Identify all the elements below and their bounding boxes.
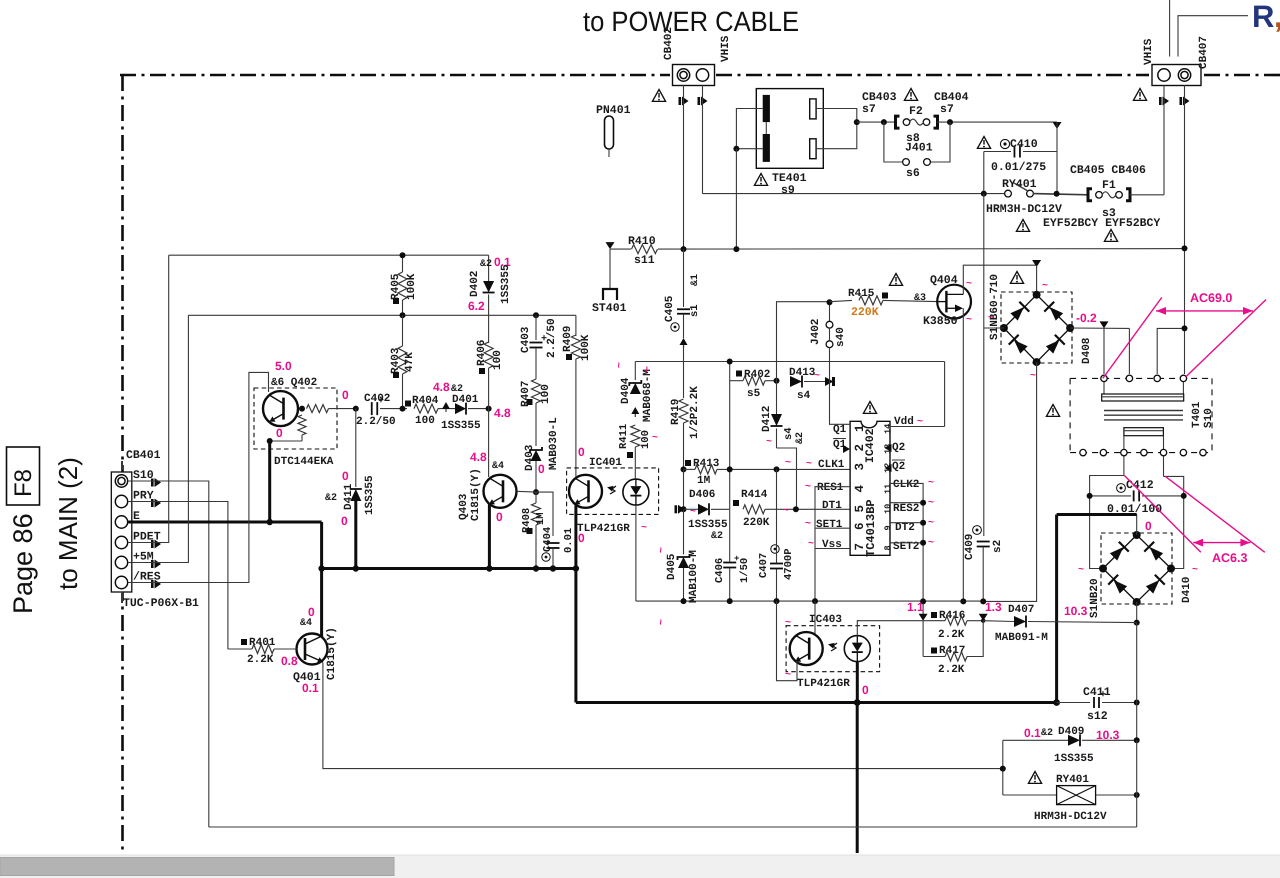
svg-text:~: ~ [652,433,658,444]
warning below D408 [1046,405,1059,417]
svg-text:Q1: Q1 [833,424,847,436]
svg-text:Vss: Vss [822,539,842,551]
T401 core [1104,410,1183,412]
capacitor C403 [535,315,537,340]
junction J402 top [827,299,833,305]
svg-text:3: 3 [853,463,867,471]
wire bus corner down to bottom bus thick [574,569,577,703]
svg-text:6: 6 [853,522,867,530]
warning near F2 [904,89,917,101]
pin CB407-2 [1178,69,1190,81]
svg-text:VHIS: VHIS [720,35,732,62]
warning EYF52BCY left [1016,220,1029,232]
svg-text:+: + [1100,690,1106,701]
svg-text:6.2: 6.2 [468,299,485,313]
svg-text:Q403: Q403 [458,493,470,520]
Q402 internal lower resistor [298,415,306,435]
svg-text:MAB068-M: MAB068-M [642,369,654,422]
svg-text:s12: s12 [1087,710,1108,723]
svg-text:D406: D406 [689,489,715,501]
svg-text:2.2K: 2.2K [938,629,965,641]
svg-text:F1: F1 [1102,179,1116,192]
T401 primary pins [1101,375,1107,381]
svg-text:C1815(Y): C1815(Y) [326,627,338,680]
wire SET1 stub [815,527,850,529]
svg-text:J402: J402 [810,319,822,345]
resistor R413 1M [685,460,691,466]
svg-text:~: ~ [928,498,934,509]
svg-text:&3: &3 [914,293,926,304]
wire /RES net to Q402 collector [128,372,269,582]
svg-text:&6 Q402: &6 Q402 [271,377,317,389]
warning near RY401 coil [1028,772,1041,784]
wire Vss stub [815,548,850,550]
svg-text:C407: C407 [758,553,770,578]
wire CLK2 stub [890,483,923,617]
svg-text:&2: &2 [795,432,806,444]
svg-text:CB405 CB406: CB405 CB406 [1070,164,1146,177]
junction rail x923 [920,598,926,604]
junction top rail column728 [727,359,733,365]
svg-text:Page 86: Page 86 [8,513,38,614]
svg-text:PN401: PN401 [596,104,631,117]
svg-text:D408: D408 [1081,337,1093,364]
wire bottom S10 return [209,826,1137,828]
junction R402 D413 D412 [774,378,780,384]
svg-text:1/2P2.2K: 1/2P2.2K [689,386,701,439]
scrollbar track [0,855,1280,878]
wire IC403 LED cathode thick [856,662,859,703]
svg-text:0.1: 0.1 [1024,726,1041,740]
wire IC403 LED anode [857,621,859,636]
svg-text:R409: R409 [562,326,574,352]
svg-text:~: ~ [785,618,791,629]
scrollbar thumb [0,858,394,876]
pin CB401 PRY [115,495,127,507]
svg-text:4.8: 4.8 [433,380,450,394]
resistor R417 2.2K parallel [922,621,924,657]
junction F2 right [947,119,953,125]
junction C410 right relay line [1054,191,1060,197]
svg-text:4.8: 4.8 [470,450,487,464]
junction wire3 left [353,406,359,412]
wire D408 bottom to rail [983,362,1036,601]
wire R415 feedback rail [777,302,830,381]
svg-text:S1NB60-710: S1NB60-710 [989,274,1001,340]
svg-text:1SS355: 1SS355 [364,475,376,515]
svg-text:s40: s40 [835,327,847,347]
svg-text:~: ~ [928,518,934,529]
connector CB402 [673,65,715,86]
junction rail C409 [980,598,986,604]
svg-text:11: 11 [883,484,893,494]
bridge rectifier D408 S1NB60-710 [1032,260,1041,267]
conn mark CB407-1 [1159,97,1162,105]
wire E net thick [128,521,322,524]
svg-text:14: 14 [883,424,893,434]
svg-text:~: ~ [808,539,814,550]
zener D404 MAB068-M [634,362,636,381]
IC402 TC4013BP body [850,421,890,555]
svg-text:s4: s4 [797,390,811,402]
svg-text:2.2K: 2.2K [938,664,965,676]
svg-text:HRM3H-DC12V: HRM3H-DC12V [1034,811,1107,823]
svg-text:8: 8 [883,545,893,550]
svg-text:0.01: 0.01 [563,528,575,553]
svg-text:4: 4 [853,485,867,493]
svg-text:220K: 220K [743,517,770,529]
wire R410 rail [606,242,615,249]
pin CB401 +5M [115,556,127,568]
conn mark CB402-1 [679,97,682,105]
svg-text:0: 0 [342,388,349,402]
svg-text:4.8: 4.8 [494,406,511,420]
svg-text:s2: s2 [992,540,1004,553]
svg-text:&4: &4 [492,461,504,472]
wire relay to F1 [1033,194,1088,195]
pin CB401 S10 [115,475,127,487]
svg-text:~: ~ [1078,565,1084,576]
svg-text:C411: C411 [1083,686,1111,699]
wire D409 left leg [1002,740,1004,795]
rail Vss bottom [636,600,983,602]
wire CB407 pin up off-page [1169,0,1171,57]
junction rail C407 [774,598,780,604]
svg-text:0: 0 [862,683,869,697]
junction wire3 right [486,406,492,412]
connector CB407 [1152,65,1201,86]
T401 pins 3-4 tie [1184,328,1186,374]
wire CB407 pin2 column down to T401 [1184,85,1186,248]
wire +5M net to wire2 [128,315,188,562]
resistor R410 [632,245,658,254]
svg-text:0: 0 [538,462,545,476]
svg-text:~: ~ [656,619,667,625]
svg-text:2.2/50: 2.2/50 [546,318,558,358]
warning near R415 [889,274,902,286]
svg-text:F2: F2 [909,105,923,118]
svg-text:VHIS: VHIS [1143,38,1155,65]
wire relay column to bottom wire [1136,740,1138,827]
junction rail x815 [812,598,818,604]
test point on wire3 [442,402,450,409]
capacitor C410 [1053,122,1062,129]
junction Q401 emitter wire [1000,766,1006,772]
junction bus C404 [550,565,556,571]
svg-text:TLP421GR: TLP421GR [797,678,850,690]
svg-text:~: ~ [966,279,972,290]
svg-text:10.3: 10.3 [1064,604,1088,618]
wire C411 column down [1136,703,1138,741]
svg-text:C406: C406 [714,558,726,583]
wire main bus thick [322,567,576,570]
svg-text:T401: T401 [1191,401,1203,428]
warning near CB407 [1133,89,1146,101]
svg-text:~: ~ [656,547,667,553]
wire LED IC401 cathode to rail [635,505,637,601]
resistor R414 220K [733,500,739,506]
junction bottom bus D410 feed [1053,699,1060,706]
wire D410-out column down [1136,623,1138,703]
junction DT1 stub [793,506,799,512]
junction rail2 C403 [533,312,539,318]
spark gap ST401 [609,249,611,288]
svg-text:C1815(Y): C1815(Y) [470,468,482,521]
svg-text:MAB091-M: MAB091-M [995,632,1048,644]
svg-text:D402: D402 [469,271,481,297]
junction bus R408 [533,565,539,571]
line filter TE401 [756,89,823,169]
svg-text:&2: &2 [325,493,337,504]
pin CB402-2 [696,69,708,81]
svg-text:S10: S10 [1203,408,1215,428]
svg-text:~: ~ [814,371,820,382]
test point C405 column [680,338,688,345]
wire IC402 top rail [635,361,944,363]
Q402 internal base resistor [299,406,305,412]
svg-text:0: 0 [1145,519,1152,533]
svg-text:~: ~ [783,506,789,517]
svg-text:0.01/275: 0.01/275 [991,161,1046,174]
wire Q401 emitter [323,663,1003,769]
svg-text:0: 0 [578,445,585,459]
junction rail CB402 column [681,246,687,252]
wire Q403 emitter thick [488,505,491,569]
svg-text:~: ~ [806,459,812,470]
svg-text:10: 10 [883,504,893,514]
svg-text:CB401: CB401 [126,449,161,462]
svg-text:RES2: RES2 [893,503,919,515]
wire C412 left leg [1090,476,1124,569]
junction rail CB407 column [1182,245,1188,251]
warning EYF52BCY right [1104,230,1117,242]
junction bottom bus IC403 [854,699,861,706]
svg-text:1.1: 1.1 [907,600,924,614]
svg-text:1.3: 1.3 [985,600,1002,614]
wire D412 jog to DT1 [777,448,797,509]
resistor R408 [535,492,537,503]
resistor R401 2.2K [241,639,247,645]
svg-text:~: ~ [766,437,772,448]
warning near CB402 [652,90,665,102]
svg-text:4700P: 4700P [783,548,795,580]
svg-text:D412: D412 [761,406,773,432]
T401 secondary winding [1124,428,1164,436]
svg-text:R: R [1252,0,1274,34]
svg-text:~: ~ [785,458,791,469]
wire SET2 stub [890,542,923,544]
svg-text:5: 5 [853,505,867,513]
wire CB402-1 column (C405 etc) [683,249,685,307]
svg-text:Q2: Q2 [892,461,905,473]
resistor R404 [405,401,411,407]
warning above IC402 [863,402,876,414]
wire TE401 right taps [816,109,857,149]
wire IC403 collector to rail [814,601,816,633]
svg-text:to POWER CABLE: to POWER CABLE [583,6,799,37]
wire E bus drop thick [320,522,323,569]
wire T401 sec taps down [1123,456,1125,476]
junction CLK1 column682 [681,466,687,472]
wire bottom bus thick [576,701,1057,704]
wire to T401 pin1 [1103,327,1105,374]
svg-text:&2: &2 [711,531,723,542]
wire F1 to CB407 [1130,194,1164,196]
svg-text:s11: s11 [634,254,655,267]
wire column728 down to DT1 [729,381,731,510]
svg-text:AC6.3: AC6.3 [1212,551,1247,565]
jumper J402 s40 [826,321,833,328]
wire Q404 drain [963,265,1036,294]
svg-text:CLK1: CLK1 [818,459,845,471]
thick feed from x1056 [1057,513,1137,516]
svg-text:100: 100 [540,384,552,404]
junction bus D411 [353,565,359,571]
svg-text:1SS355: 1SS355 [688,519,728,531]
svg-text:R411: R411 [618,424,630,449]
svg-text:2.2/50: 2.2/50 [356,416,396,428]
wire AC column down (C410->C409) [983,194,985,536]
svg-text:RES1: RES1 [817,482,844,494]
svg-text:TUC-P06X-B1: TUC-P06X-B1 [123,597,199,610]
svg-text:to MAIN (2): to MAIN (2) [53,457,83,590]
svg-text:PRY: PRY [133,490,154,503]
svg-text:100: 100 [415,415,435,427]
wire Q402 emitter to E bus thick [268,441,271,522]
test point D404 column [631,407,639,414]
wire F2 to C410 column [937,121,1057,123]
svg-text:0.1: 0.1 [302,681,319,695]
svg-text:+: + [378,396,384,407]
svg-text:2.2K: 2.2K [247,654,274,666]
svg-text:MAB100-M: MAB100-M [688,550,700,603]
svg-text:1M: 1M [697,475,711,487]
svg-text:~: ~ [1042,281,1048,292]
junction rail2 R405 [400,312,406,318]
junction TE401 right [854,119,860,125]
junction wire3 R403 [400,406,406,412]
svg-text:0.8: 0.8 [281,654,298,668]
junction rail C406 [727,598,733,604]
relay RY401 contacts [1005,190,1012,197]
wire relay contact line [702,85,704,194]
svg-text:MAB030-L: MAB030-L [548,417,560,470]
svg-text:s7: s7 [862,103,876,116]
svg-text:RY401: RY401 [1056,774,1089,786]
svg-text:~: ~ [690,507,696,518]
T401 primary winding [1103,382,1105,394]
svg-text:47K: 47K [404,352,416,372]
resistor R402 [736,371,742,377]
wire PRY net [128,502,228,650]
svg-text:s7: s7 [940,103,954,116]
wire column728 top [729,362,731,381]
arrow into R416 wire [919,614,928,621]
svg-text:~: ~ [966,315,972,326]
svg-text:100K: 100K [406,273,418,300]
wire D410 bottom down [1136,602,1138,623]
svg-text:1/50: 1/50 [739,558,751,583]
jumper J401 [884,122,902,162]
wire D410 top to thick feed [1136,515,1138,536]
label F8 grid ref box [7,447,40,505]
junction CLK1 D412 column [774,466,780,472]
svg-text:0: 0 [341,514,348,528]
wire rail1 (PDET) [169,254,489,256]
junction Q403 base node [533,489,539,495]
wire DT2 stub [890,522,923,524]
svg-text:TLP421GR: TLP421GR [577,523,630,535]
svg-text:J401: J401 [905,142,933,155]
svg-text:EYF52BCY EYF52BCY: EYF52BCY EYF52BCY [1043,217,1160,230]
resistor R416 2.2K [931,612,937,618]
svg-text:s9: s9 [781,184,795,197]
rail end segment [982,600,984,602]
svg-text:R410: R410 [628,235,656,248]
svg-text:&2: &2 [1041,728,1053,739]
wire Q404 source [962,308,964,601]
svg-text:~: ~ [805,519,811,530]
svg-text:&4: &4 [300,618,312,629]
svg-text:SET1: SET1 [816,519,843,531]
svg-text:R419: R419 [670,399,682,425]
pin CB401 E [115,516,127,528]
wire CB402 pin1 column down [683,85,685,249]
svg-text:DT2: DT2 [895,522,915,534]
wire bus stub down thick [856,703,859,854]
svg-text:~: ~ [928,538,934,549]
pin CB401 PDET [115,536,127,548]
diode D411 1SS355 [355,409,357,487]
wire TE401 to CB403 [857,121,896,123]
wire TE401 left loop [736,109,762,149]
junction D409 right [1134,737,1140,743]
svg-text:7: 7 [853,543,867,551]
svg-text:&2: &2 [480,259,492,270]
resistor R409 [575,315,577,336]
svg-text:s6: s6 [906,167,920,180]
svg-text:RY401: RY401 [1002,178,1037,191]
junction RY401 right [1134,792,1140,798]
wire IC401 emitter thick [574,506,577,569]
wire S10 net [128,481,209,827]
junction rail TE401 column [733,246,739,252]
junction relay line C410 [981,191,987,197]
junction TE401 left [733,146,739,152]
svg-text:DTC144EKA: DTC144EKA [274,456,334,468]
svg-text:R402: R402 [744,369,770,381]
svg-text:CB402: CB402 [663,27,675,60]
svg-text:~: ~ [988,313,994,324]
wire PDET net to wire1 [128,255,169,542]
svg-text:C403: C403 [520,326,532,353]
page border dash-dot left [121,75,124,852]
svg-text:+5M: +5M [133,551,154,564]
svg-text:~: ~ [1192,565,1198,576]
svg-text:,: , [1274,0,1280,34]
junction column728 CLK1 [727,466,733,472]
junction bus left [318,565,324,571]
svg-text:5.0: 5.0 [275,359,292,373]
svg-text:0: 0 [578,531,585,545]
svg-text:AC69.0: AC69.0 [1190,291,1232,305]
svg-text:D407: D407 [1008,604,1034,616]
svg-text:1SS355: 1SS355 [1054,753,1094,765]
junction D410 out [1134,620,1140,626]
wire IC403 emitter to rail [777,601,798,681]
wire top rail to Vdd corner [944,362,946,427]
svg-text:HRM3H-DC12V: HRM3H-DC12V [986,203,1062,216]
